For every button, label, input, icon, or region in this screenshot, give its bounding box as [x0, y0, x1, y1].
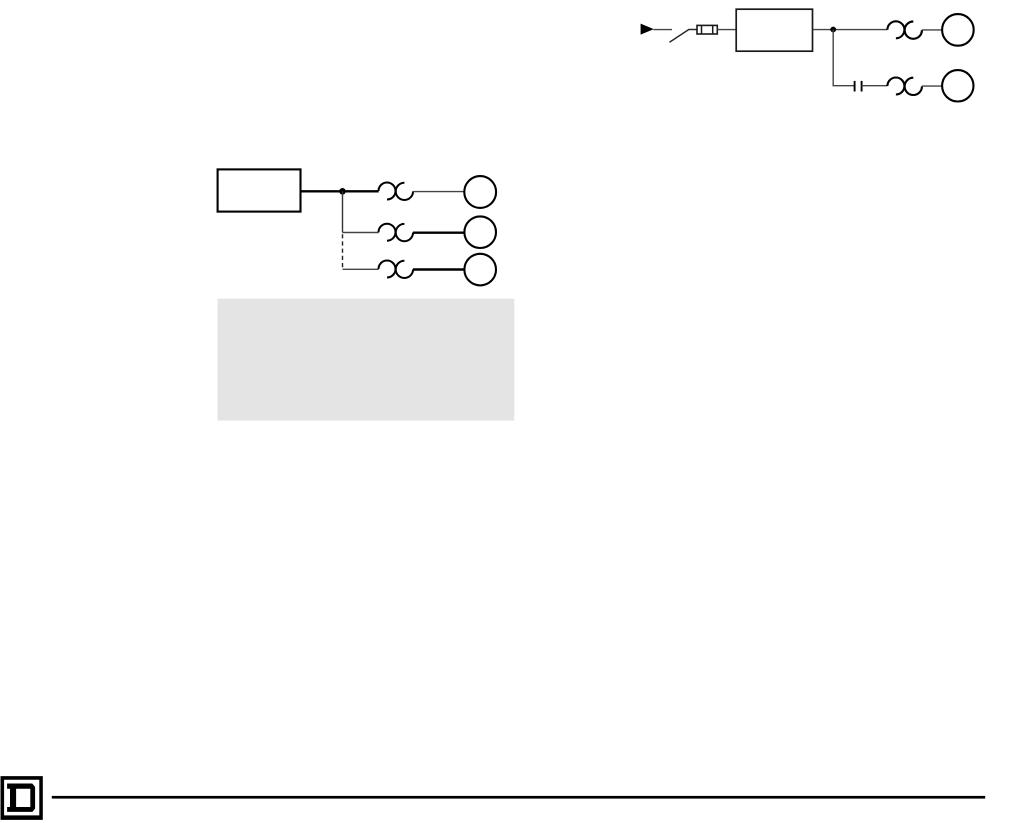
load circle (lower branch) — [942, 70, 973, 101]
wire breaker to load circle (lower branch) — [922, 85, 942, 87]
dashed future-branch wire down to branch 3 — [342, 234, 344, 269]
vertical wire junction to branch 2 — [342, 191, 344, 232]
wire breaker to load circle branch 1 — [413, 191, 464, 193]
circuit breaker branch 2 — [379, 224, 414, 242]
thick wire breaker to load circle branch 2 — [413, 231, 465, 233]
junction node (middle diagram) — [339, 188, 346, 195]
wire to breaker branch 3 — [343, 268, 379, 270]
load circle branch 1 — [464, 176, 496, 208]
wire capacitor to breaker (lower branch) — [862, 85, 888, 87]
load circle branch 2 — [464, 216, 496, 248]
Square D logo frame — [1, 776, 43, 820]
Square D logo letter D — [7, 784, 35, 812]
capacitor — [855, 81, 862, 92]
thick wire junction to breaker branch 1 — [343, 190, 379, 192]
thick wire breaker to load circle branch 3 — [413, 268, 465, 270]
thick feeder wire box to junction — [301, 190, 343, 192]
footer rule — [52, 796, 985, 799]
load circle (top branch) — [942, 14, 974, 46]
circuit breaker (top branch) — [887, 21, 922, 38]
equipment box (top diagram) — [736, 9, 812, 51]
wire box to junction and on to breaker — [813, 29, 888, 31]
fuse — [697, 25, 717, 34]
circuit breaker (lower branch) — [887, 78, 922, 96]
wire from supply arrow to switch — [654, 29, 673, 31]
gray placeholder panel — [218, 299, 515, 421]
disconnect switch (open blade) — [670, 30, 698, 43]
junction node — [830, 27, 836, 33]
equipment box (middle diagram) — [218, 169, 301, 211]
wire breaker to load circle (top branch) — [922, 29, 942, 31]
load circle branch 3 — [464, 254, 496, 286]
circuit breaker branch 1 — [379, 183, 414, 201]
incoming supply arrow — [641, 24, 654, 35]
wire junction down to capacitor branch — [833, 30, 854, 86]
wire fuse to equipment box — [717, 29, 736, 31]
circuit breaker branch 3 — [379, 261, 414, 279]
wire to breaker branch 2 — [343, 232, 379, 234]
